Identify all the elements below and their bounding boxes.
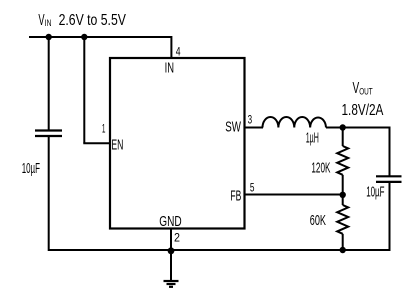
wire C1 upper [48, 37, 50, 131]
node VIN junction left [46, 34, 52, 40]
svg-text:FB: FB [230, 188, 241, 205]
wire C2 lower [389, 182, 391, 251]
resistor R1 120K [337, 146, 348, 175]
svg-text:4: 4 [176, 45, 181, 59]
svg-text:1: 1 [102, 122, 106, 136]
wire pin2 stub [170, 229, 172, 251]
svg-text:2: 2 [174, 231, 180, 245]
inductor L1 1uH [263, 117, 327, 128]
wire L1 to VOUT node [326, 127, 343, 129]
svg-text:5: 5 [250, 180, 255, 194]
svg-text:120K: 120K [311, 159, 330, 176]
wire EN vertical [83, 37, 85, 143]
svg-text:IN: IN [165, 60, 174, 77]
wire SW stub [245, 127, 264, 129]
node VOUT junction [340, 124, 346, 130]
svg-text:1µH: 1µH [306, 131, 319, 147]
svg-text:3: 3 [248, 113, 253, 127]
svg-text:EN: EN [111, 137, 123, 154]
svg-text:GND: GND [159, 213, 182, 230]
wire pin4 stub [170, 36, 172, 58]
wire R2 to bottom rail [342, 234, 344, 251]
capacitor C2 10uF [376, 176, 402, 182]
svg-text:10µF: 10µF [22, 161, 40, 177]
node GND junction [168, 247, 175, 254]
svg-text:OUT: OUT [359, 86, 373, 97]
wire R1 to FB node [342, 175, 344, 195]
op-amp U1 regulator body [110, 58, 245, 229]
resistor R2 60K [337, 205, 348, 234]
wire VOUT to C2 top [343, 128, 390, 177]
node VIN junction EN [81, 34, 87, 40]
svg-text:1.8V/2A: 1.8V/2A [342, 102, 384, 119]
svg-text:2.6V to 5.5V: 2.6V to 5.5V [59, 12, 127, 29]
ground [164, 250, 179, 287]
svg-text:IN: IN [45, 18, 52, 29]
wire FB [245, 194, 343, 196]
svg-text:10µF: 10µF [366, 185, 384, 201]
wire VOUT node to R1 [342, 128, 344, 147]
capacitor C1 10uF [35, 131, 62, 137]
svg-text:60K: 60K [310, 212, 326, 229]
node FB junction [340, 192, 346, 198]
wire top rail [29, 36, 171, 38]
label VOUT [353, 80, 373, 97]
svg-text:SW: SW [225, 119, 241, 136]
wire EN horizontal [83, 142, 110, 144]
wire FB node to R2 [342, 195, 344, 205]
wire bottom rail [49, 249, 390, 251]
wire C1 lower [48, 136, 50, 251]
node bottom right junction [340, 247, 346, 253]
label VIN [38, 12, 126, 29]
